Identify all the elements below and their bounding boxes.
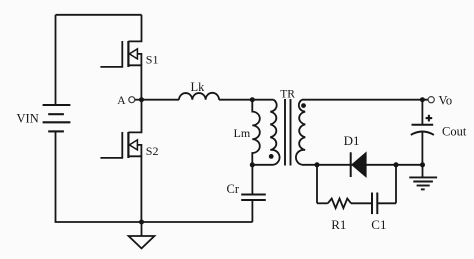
svg-text:Vo: Vo [439, 93, 453, 107]
wire S1 drain from top rail [128, 15, 141, 42]
wire R1 to C1 [351, 202, 372, 204]
wire secondary bottom rail [302, 164, 423, 166]
wire snubber bottom left [317, 202, 328, 204]
wire left vertical lower [55, 131, 57, 222]
svg-text:Lm: Lm [234, 126, 251, 140]
wire primary bottom [252, 164, 273, 166]
node Vo junction [420, 97, 425, 102]
node A junction [139, 97, 144, 102]
wire S2 source down to bottom rail [128, 156, 141, 222]
svg-text:Cr: Cr [227, 182, 240, 196]
channel bar [127, 41, 129, 67]
transformer TR secondary winding [296, 100, 305, 165]
wire Cout drop [421, 100, 423, 125]
body arrow (hollow, points left) [129, 140, 137, 150]
body connection [137, 145, 141, 156]
wire left vertical upper [55, 15, 57, 105]
inductor Lm [252, 100, 260, 165]
node snubber right junction [394, 162, 399, 167]
wire C1 to right drop [377, 202, 396, 204]
wire top rail [56, 14, 142, 16]
node bottom rail junction [139, 220, 144, 225]
capacitor Cr [241, 195, 266, 201]
wire node A to Lk [142, 99, 180, 101]
svg-text:A: A [117, 95, 126, 107]
capacitor C1 [372, 193, 377, 215]
ground (earth) [422, 165, 424, 177]
wire node A stub [135, 99, 142, 101]
transistor Q S2 (MOSFET) [100, 100, 141, 222]
svg-text:Cout: Cout [442, 125, 467, 139]
gate bar and gate lead [100, 41, 122, 67]
transformer TR primary winding [270, 100, 279, 165]
body connection [137, 54, 141, 65]
capacitor Cout plus sign [426, 115, 433, 122]
wire snubber left drop [316, 165, 318, 204]
battery VIN [43, 105, 71, 131]
wire bottom rail [55, 221, 253, 223]
wire S1 source down to node A [128, 65, 141, 99]
node Lm top junction [250, 97, 255, 102]
wire secondary top to Vo [302, 99, 428, 101]
svg-text:S1: S1 [146, 52, 159, 66]
wire Cr drop [251, 165, 253, 194]
wire Lk to transformer [219, 99, 274, 101]
transformer core [284, 99, 286, 166]
svg-text:R1: R1 [331, 217, 346, 232]
svg-text:D1: D1 [344, 133, 360, 148]
body arrow (hollow, points left) [129, 49, 137, 59]
node output ground junction [420, 162, 425, 167]
svg-text:S2: S2 [146, 144, 159, 158]
transformer secondary polarity dot [301, 103, 306, 108]
resistor R1 [328, 199, 351, 209]
transistor Q S1 (MOSFET) [100, 15, 141, 100]
node snubber left junction [315, 162, 320, 167]
diode D1 triangle [352, 153, 366, 177]
diode D1 cathode bar [350, 152, 352, 177]
wire Cout to ground node [421, 132, 423, 165]
node A terminal circle [129, 97, 135, 103]
inductor Lk [179, 93, 219, 100]
gate bar and gate lead [100, 132, 122, 158]
channel bar [127, 132, 129, 158]
transformer primary polarity dot [269, 154, 274, 159]
svg-text:VIN: VIN [17, 112, 39, 126]
node Lm bottom junction [250, 162, 255, 167]
wire S2 drain from node A [128, 100, 141, 133]
wire Cr to bottom rail [251, 200, 253, 222]
svg-text:C1: C1 [371, 217, 386, 232]
ground (chassis triangle) [141, 222, 143, 236]
svg-text:Lk: Lk [191, 80, 206, 94]
svg-text:TR: TR [280, 88, 295, 100]
wire snubber right drop [395, 165, 397, 204]
node Vo terminal circle [428, 97, 434, 103]
capacitor Cout [412, 124, 434, 126]
